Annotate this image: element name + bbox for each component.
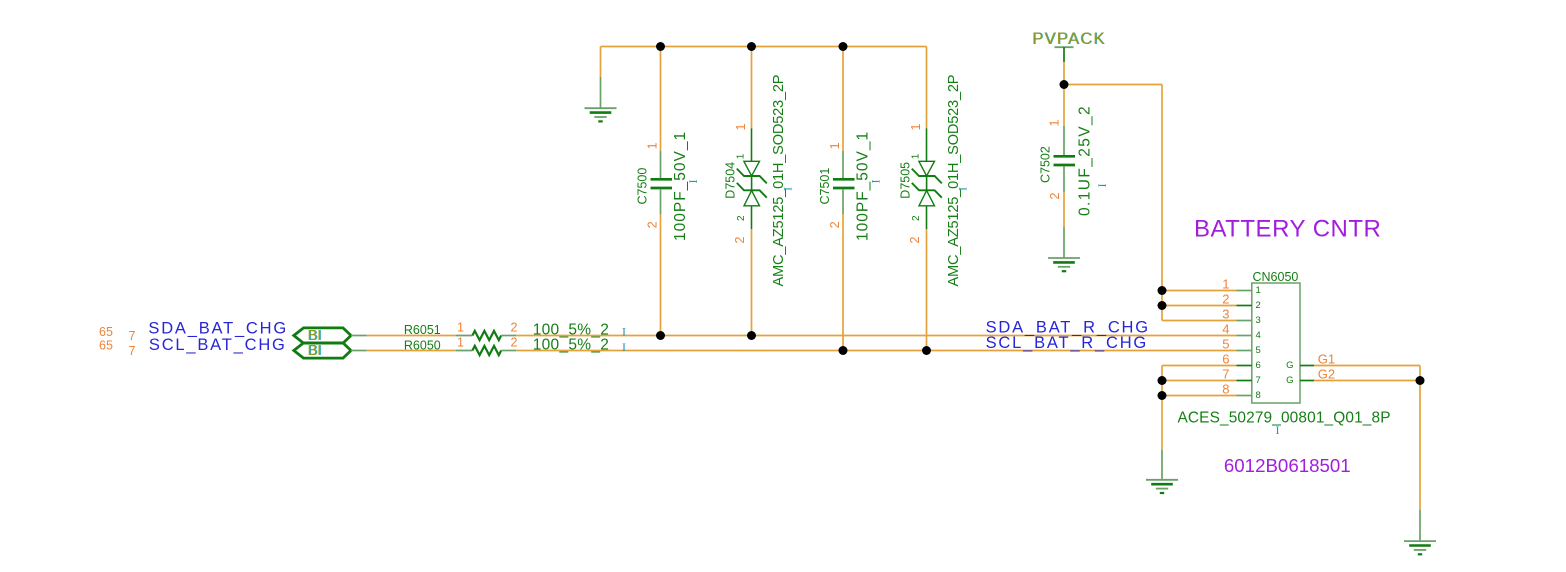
svg-text:2: 2	[1256, 300, 1261, 311]
wire pin7	[1162, 380, 1237, 382]
svg-text:AMC_AZ5125_01H_SOD523_2P: AMC_AZ5125_01H_SOD523_2P	[771, 75, 787, 287]
wire pin3	[1162, 320, 1237, 322]
svg-text:1: 1	[734, 124, 748, 131]
svg-text:G1: G1	[1318, 352, 1335, 367]
port BI (SCL) text	[308, 343, 323, 359]
svg-text:G: G	[1286, 375, 1293, 386]
svg-text:2: 2	[733, 237, 747, 244]
svg-text:SCL_BAT_R_CHG: SCL_BAT_R_CHG	[986, 334, 1148, 352]
ground bottom-right	[1404, 510, 1436, 554]
junction dot SCL / C7501	[839, 346, 848, 355]
junction dot pin1	[1158, 286, 1167, 295]
svg-text:1: 1	[457, 320, 464, 334]
svg-text:6012B0618501: 6012B0618501	[1224, 455, 1351, 476]
wire SDA row right segment	[516, 335, 1236, 337]
diode D7504 (bidirectional TVS)	[737, 128, 767, 229]
PVPACK power symbol	[1055, 47, 1074, 62]
wire pin2	[1162, 305, 1237, 307]
svg-text:2: 2	[511, 335, 518, 349]
svg-text:2: 2	[911, 215, 922, 221]
port BI (SDA) hexagon	[294, 328, 351, 343]
wire D7504 bottom to SDA row	[751, 229, 753, 336]
capacitor C7502	[1054, 126, 1076, 192]
port BI (SCL) lead	[351, 350, 367, 352]
svg-text:C7500: C7500	[636, 168, 650, 205]
CN6050 pin names G,G	[1286, 360, 1293, 386]
svg-text:100PF_50V_1: 100PF_50V_1	[855, 131, 872, 241]
wire C7501 bottom to SCL row	[842, 214, 844, 351]
svg-text:D7505: D7505	[899, 162, 913, 199]
wire PVPACK horizontal	[1064, 84, 1162, 86]
svg-text:G2: G2	[1318, 367, 1335, 382]
svg-text:100PF_50V_1: 100PF_50V_1	[672, 131, 689, 241]
junction dot top bus / D7504	[747, 42, 756, 51]
svg-text:0.1UF_25V_2: 0.1UF_25V_2	[1077, 105, 1094, 216]
svg-text:2: 2	[1222, 291, 1229, 306]
svg-text:SCL_BAT_CHG: SCL_BAT_CHG	[149, 336, 287, 354]
svg-text:1: 1	[828, 142, 842, 149]
junction dot SDA / D7504	[747, 331, 756, 340]
wire pin1	[1162, 290, 1237, 292]
svg-text:I: I	[622, 340, 626, 354]
svg-text:1: 1	[911, 153, 922, 159]
junction dot SCL / D7505	[922, 346, 931, 355]
svg-text:C7502: C7502	[1039, 146, 1053, 183]
svg-text:I: I	[622, 325, 626, 339]
svg-text:4: 4	[1222, 321, 1229, 336]
svg-text:I: I	[956, 187, 970, 191]
junction dot G1/G2	[1416, 376, 1425, 385]
wire SCL row left segment	[367, 350, 456, 352]
svg-text:I: I	[781, 187, 795, 191]
svg-text:7: 7	[1222, 366, 1229, 381]
CN6050 pin numbers G1,G2	[1318, 352, 1335, 382]
svg-text:ACES_50279_00801_Q01_8P: ACES_50279_00801_Q01_8P	[1178, 409, 1391, 426]
svg-text:65: 65	[99, 338, 113, 352]
svg-text:2: 2	[828, 221, 842, 228]
wire G2 horizontal	[1314, 380, 1420, 382]
svg-text:2: 2	[736, 215, 747, 221]
wire SDA row left segment	[367, 335, 456, 337]
svg-text:BI: BI	[308, 343, 322, 359]
ground top-left	[585, 77, 617, 121]
svg-text:I: I	[869, 180, 883, 184]
svg-text:4: 4	[1256, 330, 1261, 341]
svg-text:2: 2	[908, 237, 922, 244]
svg-text:8: 8	[1222, 381, 1229, 396]
svg-text:6: 6	[1222, 351, 1229, 366]
svg-text:AMC_AZ5125_01H_SOD523_2P: AMC_AZ5125_01H_SOD523_2P	[946, 75, 962, 287]
wire G1 corner down	[1419, 366, 1421, 381]
wire D7504 top	[751, 47, 753, 129]
svg-text:65: 65	[99, 325, 113, 339]
resistor R6051	[456, 331, 516, 340]
svg-text:C7501: C7501	[818, 168, 832, 205]
junction dot top bus / C7500	[656, 42, 665, 51]
wire C7502 bottom	[1063, 192, 1065, 227]
junction dot PVPACK	[1060, 80, 1069, 89]
junction dot pin7	[1158, 376, 1167, 385]
wire G1 horizontal	[1314, 365, 1420, 367]
wire C7501 top	[842, 47, 844, 152]
svg-text:G: G	[1286, 360, 1293, 371]
wire ground stub top-left	[600, 47, 602, 78]
junction dot pin2	[1158, 301, 1167, 310]
wire PVPACK vertical	[1063, 62, 1065, 126]
svg-text:1: 1	[646, 142, 660, 149]
svg-text:3: 3	[1222, 306, 1229, 321]
junction dot pin8	[1158, 391, 1167, 400]
ground below C7502	[1048, 227, 1080, 271]
connector CN6050 box	[1252, 283, 1300, 403]
svg-text:2: 2	[1048, 193, 1062, 200]
wire left vertical lower (pin6 to ground)	[1161, 366, 1163, 450]
wire D7505 top	[926, 47, 928, 129]
svg-text:CN6050: CN6050	[1253, 270, 1299, 284]
PVPACK net name	[1032, 30, 1106, 48]
svg-text:1: 1	[909, 124, 923, 131]
wire left vertical upper (PVPACK to pin3)	[1161, 85, 1163, 321]
ground below pin8 vertical	[1146, 450, 1178, 493]
capacitor C7500	[651, 151, 673, 214]
wire C7500 top	[660, 47, 662, 152]
CN6050 pin names 1-8	[1256, 285, 1261, 401]
resistor R6050	[456, 346, 516, 355]
CN6050 pin numbers 1-8	[1222, 276, 1229, 396]
port BI (SCL) hexagon	[294, 343, 351, 358]
wire top bus	[601, 46, 927, 48]
svg-text:I: I	[686, 180, 700, 184]
wire C7500 bottom to SDA row	[660, 214, 662, 336]
svg-text:R6050: R6050	[404, 339, 441, 353]
CN6050 pin leads right (G1,G2)	[1300, 366, 1314, 381]
svg-text:7: 7	[1256, 375, 1261, 386]
svg-text:5: 5	[1222, 336, 1229, 351]
svg-text:D7504: D7504	[724, 162, 738, 199]
junction dot SDA / C7500	[656, 331, 665, 340]
wire SCL row right segment	[516, 350, 1236, 352]
svg-text:2: 2	[511, 320, 518, 334]
svg-text:7: 7	[129, 344, 136, 358]
wire D7505 bottom to SCL row	[926, 229, 928, 351]
svg-text:7: 7	[129, 329, 136, 343]
svg-text:PVPACK: PVPACK	[1032, 30, 1106, 48]
diode D7505 (bidirectional TVS)	[912, 128, 942, 229]
svg-text:1: 1	[1256, 285, 1261, 296]
wire right vertical to ground	[1419, 381, 1421, 511]
svg-text:1: 1	[1048, 120, 1062, 127]
port BI (SDA) lead	[351, 335, 367, 337]
capacitor C7501	[833, 151, 855, 214]
svg-text:8: 8	[1256, 390, 1261, 401]
CN6050 pin leads left	[1237, 291, 1252, 396]
svg-text:I: I	[1095, 184, 1109, 188]
wire pin6	[1162, 365, 1237, 367]
svg-text:6: 6	[1256, 360, 1261, 371]
junction dot top bus / C7501	[839, 42, 848, 51]
svg-text:2: 2	[646, 221, 660, 228]
wire pin8	[1162, 395, 1237, 397]
svg-text:BATTERY CNTR: BATTERY CNTR	[1194, 215, 1381, 242]
svg-text:1: 1	[1222, 276, 1229, 291]
svg-text:R6051: R6051	[404, 323, 441, 337]
svg-text:1: 1	[457, 335, 464, 349]
svg-text:1: 1	[736, 153, 747, 159]
svg-text:5: 5	[1256, 345, 1261, 356]
svg-text:I: I	[1276, 423, 1280, 437]
port BI (SDA) text	[308, 328, 323, 344]
svg-text:3: 3	[1256, 315, 1261, 326]
